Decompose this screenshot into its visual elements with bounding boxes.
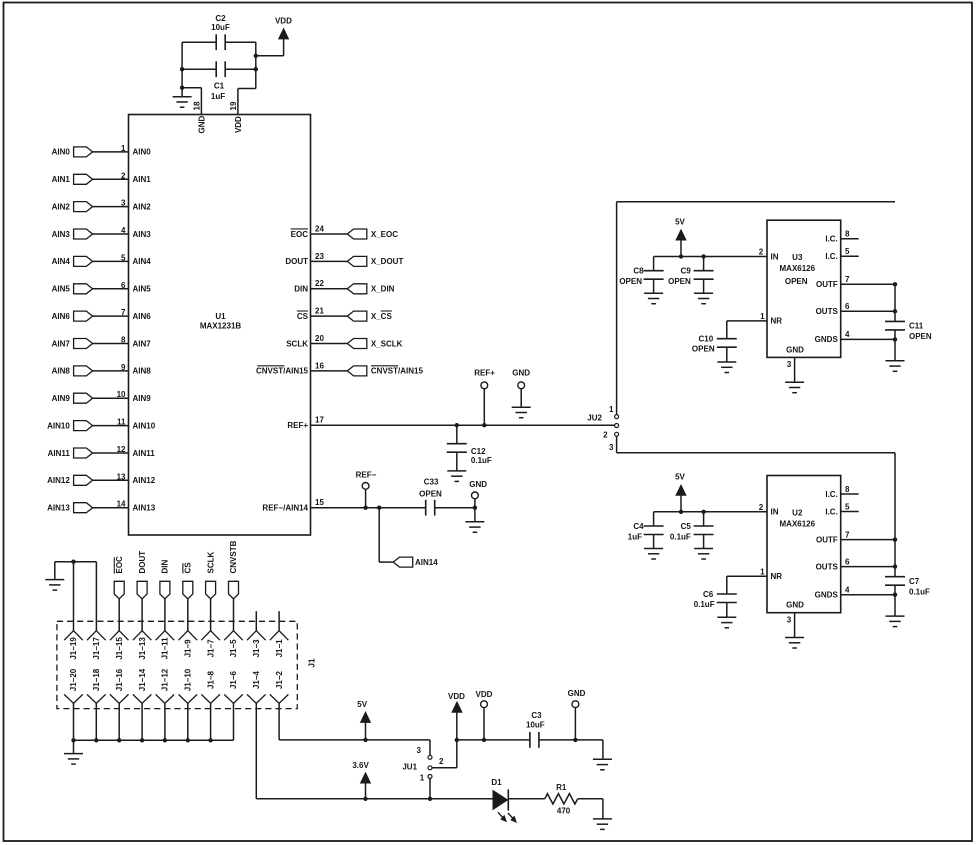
wire to U1 GND pin 18 (182, 87, 201, 89)
ground at C12 (447, 471, 466, 482)
svg-text:J1−6: J1−6 (229, 670, 238, 689)
svg-text:AIN10: AIN10 (133, 421, 156, 430)
svg-text:OPEN: OPEN (419, 489, 442, 498)
svg-text:CS: CS (297, 312, 309, 321)
wire REF- net from U1 pin 15 to C33 (311, 507, 426, 509)
jumper JU1 pin 2 (428, 766, 432, 770)
ground at C3 (602, 740, 604, 759)
svg-text:J1−8: J1−8 (206, 670, 215, 689)
svg-text:2: 2 (759, 503, 764, 512)
svg-text:3: 3 (787, 360, 792, 369)
node AIN9 flag (74, 393, 93, 403)
svg-text:JU1: JU1 (402, 763, 417, 772)
svg-text:VDD: VDD (476, 690, 493, 699)
wire C1 row (182, 68, 216, 70)
wire U2 GNDS to ground (894, 595, 896, 616)
svg-text:C8: C8 (633, 267, 644, 276)
node CNVST/AIN15 flag (347, 366, 367, 376)
svg-text:EOC: EOC (115, 556, 124, 574)
svg-text:AIN7: AIN7 (52, 339, 71, 348)
svg-text:4: 4 (121, 226, 126, 235)
node X_CS flag (347, 311, 367, 321)
connector pin J1-16 (110, 694, 129, 703)
node AIN8 flag (74, 366, 93, 376)
svg-text:J1−16: J1−16 (115, 668, 124, 691)
svg-text:22: 22 (315, 279, 324, 288)
wire to U1 VDD pin 19 (238, 88, 256, 90)
ground at C33 (474, 508, 476, 522)
connector pin J1-1 (270, 631, 289, 641)
svg-text:NR: NR (771, 572, 783, 581)
svg-text:AIN5: AIN5 (133, 285, 152, 294)
connector pin J1-14 (133, 694, 152, 703)
svg-text:CS: CS (184, 562, 193, 574)
svg-text:10uF: 10uF (526, 721, 545, 730)
connector pin J1-12 (156, 694, 175, 703)
connector pin J1-18 (87, 694, 106, 703)
svg-text:J1−13: J1−13 (138, 637, 147, 660)
svg-text:J1−15: J1−15 (115, 637, 124, 660)
svg-text:C4: C4 (633, 522, 644, 531)
svg-text:U2: U2 (792, 508, 803, 517)
capacitor C11 OPEN (885, 321, 905, 330)
svg-text:IN: IN (771, 252, 779, 261)
node AIN14 flag (393, 557, 413, 567)
svg-text:J1−19: J1−19 (69, 637, 78, 660)
svg-text:19: 19 (229, 101, 238, 110)
svg-text:1: 1 (420, 774, 425, 783)
connector pin J1-4 (247, 694, 266, 703)
capacitor C2 10uF (216, 34, 225, 50)
capacitor C33 OPEN (426, 500, 435, 516)
svg-text:3: 3 (787, 615, 792, 624)
svg-text:J1−9: J1−9 (184, 639, 193, 658)
wire U1 DOUT to flag (311, 260, 348, 262)
svg-text:J1−12: J1−12 (161, 668, 170, 691)
node DOUT flag (137, 581, 147, 599)
node AIN6 flag (74, 311, 93, 321)
svg-text:1uF: 1uF (628, 533, 642, 542)
connector pin J1-3 (247, 631, 266, 641)
svg-text:1: 1 (609, 405, 614, 414)
wire EOC flag to J1 (118, 599, 120, 631)
svg-text:AIN8: AIN8 (52, 367, 71, 376)
wire J1 ground bus (74, 739, 234, 741)
node AIN5 flag (74, 284, 93, 294)
svg-text:1: 1 (121, 144, 126, 153)
svg-text:11: 11 (117, 418, 126, 427)
node X_SCLK flag (347, 339, 367, 349)
capacitor C4 1uF (653, 512, 655, 526)
svg-text:AIN8: AIN8 (133, 367, 152, 376)
svg-text:4: 4 (845, 586, 850, 595)
jumper JU2 pin 1 (615, 415, 619, 419)
svg-text:AIN12: AIN12 (47, 476, 70, 485)
svg-text:SCLK: SCLK (206, 552, 215, 574)
svg-text:J1−17: J1−17 (92, 637, 101, 660)
wire AIN1 to U1 pin 2 (93, 178, 129, 180)
svg-text:AIN12: AIN12 (133, 476, 156, 485)
node AIN12 flag (74, 475, 93, 485)
connector pin J1-2 (270, 694, 289, 703)
svg-text:X_DIN: X_DIN (371, 285, 395, 294)
wire DOUT flag to J1 (141, 599, 143, 631)
wire JU1 pin2 to VDD arrow (432, 767, 457, 769)
wire REF+ net from U1 pin 17 to JU2 pin 2 (311, 424, 615, 426)
wire AIN12 to U1 pin 13 (93, 479, 129, 481)
IC U1 MAX1231B body (129, 115, 311, 536)
svg-text:OUTS: OUTS (816, 307, 839, 316)
svg-text:OUTS: OUTS (816, 562, 839, 571)
wire U1 DIN to flag (311, 288, 348, 290)
svg-text:4: 4 (845, 330, 850, 339)
svg-text:AIN7: AIN7 (133, 339, 152, 348)
wire AIN9 to U1 pin 10 (93, 397, 129, 399)
ground at R1 (593, 819, 612, 830)
svg-text:6: 6 (845, 557, 850, 566)
svg-text:X_DOUT: X_DOUT (371, 257, 404, 266)
svg-text:C6: C6 (703, 590, 714, 599)
svg-text:24: 24 (315, 224, 324, 233)
svg-text:5V: 5V (357, 700, 367, 709)
node AIN13 flag (74, 503, 93, 513)
wire AIN7 to U1 pin 8 (93, 343, 129, 345)
svg-text:2: 2 (759, 248, 764, 257)
svg-text:X_EOC: X_EOC (371, 230, 398, 239)
svg-text:AIN1: AIN1 (133, 175, 152, 184)
svg-text:J1−1: J1−1 (275, 639, 284, 658)
svg-text:J1−10: J1−10 (184, 668, 193, 691)
wire C3 to GND corner (539, 739, 603, 741)
svg-text:J1−4: J1−4 (252, 670, 261, 689)
node AIN7 flag (74, 339, 93, 349)
jumper JU2 pin 2 (615, 424, 619, 428)
svg-text:18: 18 (193, 101, 202, 110)
svg-text:AIN14: AIN14 (415, 558, 438, 567)
wire GND to J1-19 J1-17 (55, 561, 97, 563)
svg-text:CNVSTB: CNVSTB (229, 540, 238, 573)
svg-text:OPEN: OPEN (692, 345, 715, 354)
svg-text:AIN1: AIN1 (52, 175, 71, 184)
svg-text:3: 3 (416, 746, 421, 755)
ground at J1 bus (73, 740, 75, 753)
svg-text:J1−20: J1−20 (69, 668, 78, 691)
wire 5V rail to U3 IN (654, 256, 767, 258)
wire J1-2 to 5V row (278, 703, 280, 740)
svg-text:AIN6: AIN6 (52, 312, 71, 321)
svg-text:15: 15 (315, 498, 324, 507)
svg-text:DOUT: DOUT (138, 551, 147, 574)
svg-text:AIN4: AIN4 (52, 257, 71, 266)
svg-text:20: 20 (315, 334, 324, 343)
svg-text:OPEN: OPEN (785, 277, 808, 286)
svg-text:C5: C5 (681, 522, 692, 531)
svg-text:NR: NR (771, 317, 783, 326)
node AIN1 flag (74, 174, 93, 184)
ground at C5 (694, 549, 713, 560)
ground at REF+ GND terminal (512, 407, 531, 418)
svg-text:AIN11: AIN11 (48, 449, 71, 458)
node X_EOC flag (347, 229, 367, 239)
node AIN10 flag (74, 421, 93, 431)
jumper JU1 pin 3 (428, 755, 432, 759)
svg-text:16: 16 (315, 361, 324, 370)
svg-text:AIN4: AIN4 (133, 257, 152, 266)
svg-text:7: 7 (845, 530, 850, 539)
svg-text:GND: GND (786, 345, 804, 354)
ground at C7 (886, 616, 905, 627)
svg-text:AIN6: AIN6 (133, 312, 152, 321)
svg-text:AIN3: AIN3 (133, 230, 152, 239)
svg-text:U1: U1 (215, 312, 226, 321)
jumper JU2 pin 3 (615, 432, 619, 436)
svg-text:DIN: DIN (161, 560, 170, 574)
svg-text:AIN11: AIN11 (133, 449, 156, 458)
svg-text:14: 14 (117, 500, 126, 509)
capacitor C3 10uF (530, 732, 539, 748)
ground at U3 GND pin (785, 382, 804, 393)
wire JU1 pin1 to LED row (429, 779, 431, 799)
ground at C4 (644, 549, 663, 560)
svg-text:2: 2 (121, 171, 126, 180)
wire U1 CS to flag (311, 315, 348, 317)
svg-text:J1−18: J1−18 (92, 668, 101, 691)
svg-text:GND: GND (786, 601, 804, 610)
svg-text:10uF: 10uF (211, 23, 230, 32)
wire AIN2 to U1 pin 3 (93, 206, 129, 208)
svg-text:OPEN: OPEN (909, 332, 932, 341)
wire AIN3 to U1 pin 4 (93, 233, 129, 235)
svg-text:2: 2 (603, 431, 608, 440)
svg-text:5V: 5V (675, 217, 685, 226)
node X_DOUT flag (347, 256, 367, 266)
wire AIN13 to U1 pin 14 (93, 507, 129, 509)
ground at C8 (644, 293, 663, 304)
svg-text:AIN13: AIN13 (133, 504, 156, 513)
svg-text:OPEN: OPEN (668, 277, 691, 286)
node AIN2 flag (74, 202, 93, 212)
connector pin J1-11 (156, 631, 175, 641)
svg-text:J1−5: J1−5 (229, 639, 238, 658)
wire J1-4 to 3.6V row (255, 703, 257, 798)
svg-text:3: 3 (121, 199, 126, 208)
wire AIN0 to U1 pin 1 (93, 151, 129, 153)
svg-text:AIN2: AIN2 (133, 202, 152, 211)
svg-text:OPEN: OPEN (619, 277, 642, 286)
wire VDD row to C3 (457, 739, 530, 741)
wire U2 output bus (894, 540, 896, 577)
ground at C9 (694, 293, 713, 304)
svg-text:I.C.: I.C. (825, 252, 837, 261)
svg-text:AIN5: AIN5 (52, 285, 71, 294)
svg-text:0.1uF: 0.1uF (694, 600, 715, 609)
ground at C1/C2 (181, 88, 183, 97)
wire left cap bus (181, 42, 183, 87)
svg-text:23: 23 (315, 252, 324, 261)
wire U3 GNDS to ground (894, 339, 896, 360)
svg-text:8: 8 (845, 230, 850, 239)
svg-text:AIN13: AIN13 (47, 504, 70, 513)
svg-text:C3: C3 (531, 711, 542, 720)
svg-text:CNVST/AIN15: CNVST/AIN15 (256, 367, 309, 376)
svg-text:6: 6 (121, 281, 126, 290)
svg-text:C2: C2 (215, 14, 226, 23)
capacitor C10 OPEN (726, 321, 728, 339)
svg-text:5: 5 (845, 502, 850, 511)
svg-text:X_SCLK: X_SCLK (371, 339, 403, 348)
svg-text:GND: GND (512, 368, 530, 377)
svg-text:CNVST/AIN15: CNVST/AIN15 (371, 367, 424, 376)
node AIN3 flag (74, 229, 93, 239)
svg-text:C33: C33 (424, 477, 439, 486)
svg-text:2: 2 (439, 757, 444, 766)
svg-text:AIN3: AIN3 (52, 230, 71, 239)
wire AIN5 to U1 pin 6 (93, 288, 129, 290)
svg-text:0.1uF: 0.1uF (471, 456, 492, 465)
svg-text:EOC: EOC (291, 230, 309, 239)
connector pin J1-5 (224, 631, 243, 641)
ground at J1-17/19 (45, 580, 64, 591)
node AIN0 flag (74, 147, 93, 157)
svg-text:I.C.: I.C. (825, 490, 837, 499)
svg-text:J1−7: J1−7 (206, 639, 215, 658)
wire GND terminal stem (520, 389, 522, 408)
svg-text:GND: GND (568, 689, 586, 698)
IC U2 MAX6126 body (767, 476, 841, 613)
svg-text:C10: C10 (699, 335, 714, 344)
svg-text:C9: C9 (681, 267, 692, 276)
capacitor C7 0.1uF (885, 577, 905, 586)
svg-text:C11: C11 (909, 322, 924, 331)
svg-text:0.1uF: 0.1uF (670, 533, 691, 542)
svg-text:GND: GND (197, 115, 206, 133)
svg-text:0.1uF: 0.1uF (909, 588, 930, 597)
svg-text:REF−: REF− (356, 470, 377, 479)
wire 5V row corner to JU1 pin 3 (429, 740, 431, 755)
wire AIN8 to U1 pin 9 (93, 370, 129, 372)
ground at C11 (886, 361, 905, 372)
svg-text:VDD: VDD (448, 692, 465, 701)
wire R1 to ground (578, 798, 603, 800)
svg-text:C12: C12 (471, 447, 486, 456)
svg-text:GNDS: GNDS (815, 335, 839, 344)
svg-text:GND: GND (469, 480, 487, 489)
capacitor C6 0.1uF (726, 576, 728, 594)
svg-text:7: 7 (121, 308, 126, 317)
wire J1-1 stub (278, 611, 280, 631)
svg-text:17: 17 (315, 416, 324, 425)
wire U1 CNVST/AIN15 to flag (311, 370, 348, 372)
wire C33 to GND terminal (435, 507, 475, 509)
node AIN4 flag (74, 256, 93, 266)
svg-text:D1: D1 (491, 778, 502, 787)
svg-text:12: 12 (117, 445, 126, 454)
svg-text:MAX6126: MAX6126 (780, 519, 816, 528)
connector pin J1-7 (201, 631, 220, 641)
svg-text:VDD: VDD (275, 17, 292, 26)
wire SCLK flag to J1 (210, 599, 212, 631)
capacitor C9 OPEN (701, 254, 705, 258)
svg-text:U3: U3 (792, 253, 803, 262)
svg-text:I.C.: I.C. (825, 507, 837, 516)
svg-text:I.C.: I.C. (825, 235, 837, 244)
node DIN flag (160, 581, 170, 599)
svg-text:DIN: DIN (294, 285, 308, 294)
svg-text:6: 6 (845, 302, 850, 311)
svg-text:MAX6126: MAX6126 (780, 264, 816, 273)
wire 5V rail to U2 IN (654, 511, 767, 513)
wire U1 EOC to flag (311, 233, 348, 235)
node X_DIN flag (347, 284, 367, 294)
svg-text:AIN0: AIN0 (52, 148, 71, 157)
wire CNVSTB flag to J1 (233, 599, 235, 631)
svg-text:MAX1231B: MAX1231B (200, 322, 242, 331)
svg-text:5V: 5V (675, 473, 685, 482)
node SCLK flag (206, 581, 216, 599)
connector pin J1-19 (64, 631, 83, 641)
svg-text:5: 5 (845, 247, 850, 256)
svg-text:10: 10 (117, 390, 126, 399)
wire U3 output bus (894, 284, 896, 321)
svg-text:JU2: JU2 (587, 414, 602, 423)
svg-text:REF+: REF+ (287, 421, 308, 430)
IC U3 MAX6126 body (767, 220, 841, 357)
jumper JU1 pin 1 (428, 775, 432, 779)
svg-text:J1−11: J1−11 (161, 637, 170, 660)
wire REF- terminal stem (365, 489, 367, 507)
wire AIN10 to U1 pin 11 (93, 425, 129, 427)
connector pin J1-15 (110, 631, 129, 641)
wire AIN6 to U1 pin 7 (93, 315, 129, 317)
capacitor C5 0.1uF (701, 510, 705, 514)
svg-text:C1: C1 (214, 82, 225, 91)
svg-text:9: 9 (121, 363, 126, 372)
svg-text:7: 7 (845, 275, 850, 284)
node CS flag (183, 581, 193, 599)
svg-text:AIN9: AIN9 (52, 394, 71, 403)
wire C2 top row (182, 41, 216, 43)
wire AIN14 branch (377, 506, 381, 510)
svg-text:SCLK: SCLK (286, 339, 308, 348)
connector pin J1-8 (201, 694, 220, 703)
wire AIN11 to U1 pin 12 (93, 452, 129, 454)
svg-text:OUTF: OUTF (816, 535, 838, 544)
svg-text:3: 3 (609, 443, 614, 452)
wire VDD terminal stem (483, 708, 485, 740)
capacitor C8 OPEN (653, 257, 655, 271)
svg-text:VDD: VDD (234, 116, 243, 133)
connector pin J1-13 (133, 631, 152, 641)
connector pin J1-6 (224, 694, 243, 703)
wire LED to R1 (508, 798, 545, 800)
connector pin J1-17 (87, 631, 106, 641)
svg-text:C7: C7 (909, 577, 920, 586)
svg-text:J1: J1 (307, 658, 316, 667)
wire CS flag to J1 (187, 599, 189, 631)
wire right cap bus (255, 42, 257, 88)
ground at C6 (717, 617, 736, 628)
node CNVSTB flag (229, 581, 239, 599)
svg-text:1: 1 (760, 312, 765, 321)
svg-text:REF−/AIN14: REF−/AIN14 (262, 504, 308, 513)
wire AIN4 to U1 pin 5 (93, 260, 129, 262)
svg-text:AIN9: AIN9 (133, 394, 152, 403)
svg-text:REF+: REF+ (474, 368, 495, 377)
svg-text:1uF: 1uF (211, 92, 225, 101)
svg-text:13: 13 (117, 472, 126, 481)
node AIN11 flag (74, 448, 93, 458)
svg-text:5: 5 (121, 253, 126, 262)
